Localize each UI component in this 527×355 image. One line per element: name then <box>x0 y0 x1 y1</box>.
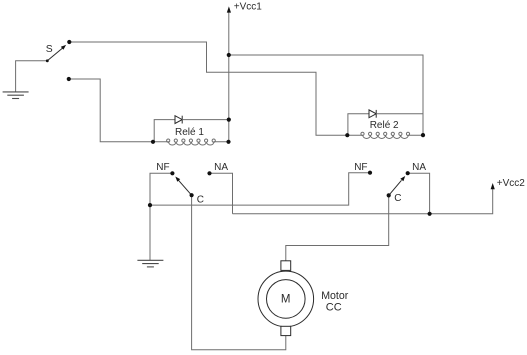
relay K1 (Rele 1) coil winding <box>153 142 229 145</box>
wire S throw-2 to Rele 1 coil left <box>69 79 153 142</box>
node NF1 <box>170 171 174 175</box>
node C1 <box>190 193 194 197</box>
node NA2 <box>406 171 410 175</box>
node NA1 <box>207 171 211 175</box>
node Rele 2 coil right <box>421 133 425 137</box>
wire Rele 1 diode anode branch <box>154 120 175 142</box>
wire +Vcc1 stem down to Rele 1 coil right <box>228 12 230 142</box>
wire C1 down and along bottom to motor - terminal <box>192 195 286 350</box>
svg-text:S: S <box>46 44 53 55</box>
relay contact 1 lever (C to NF) <box>178 180 191 195</box>
diode D1 (Rele 1 flyback) (triangle + cathode bar) <box>175 116 182 124</box>
wire NA2 down to Vcc2 bus <box>408 173 430 214</box>
switch S throw-1 contact / node to Rele 2 <box>67 40 71 44</box>
wire NA1 down to Vcc2 bus <box>210 173 233 214</box>
junction D1 cathode <box>227 118 231 122</box>
svg-text:Relé 2: Relé 2 <box>370 120 399 131</box>
wire Rele 2 diode anode branch <box>348 114 369 135</box>
junction NF1 bus <box>148 203 152 207</box>
junction Vcc1 feed <box>227 53 231 57</box>
relay contact 2 lever (C to NA) <box>389 180 402 195</box>
relay K2 (Rele 2) coil winding <box>347 135 423 138</box>
power +Vcc2 arrow <box>491 183 495 189</box>
wire S pole to ground <box>16 61 48 92</box>
node Rele 2 coil left <box>345 133 349 137</box>
svg-text:NF: NF <box>354 162 367 173</box>
svg-text:Motor: Motor <box>321 290 349 302</box>
wire S top contact to Rele 2 coil left <box>69 42 347 135</box>
junction NA2 on Vcc2 bus <box>428 212 432 216</box>
motor M1 bottom terminal <box>281 326 291 335</box>
wire Rele 1 diode cathode to coil right <box>182 119 229 121</box>
motor M1 body (outer circle) <box>258 271 314 327</box>
node Rele 1 coil left <box>151 140 155 144</box>
ground (switch S) <box>3 92 29 99</box>
svg-text:C: C <box>197 195 204 206</box>
node Rele 1 coil right <box>226 140 230 144</box>
svg-text:Relé 1: Relé 1 <box>175 127 204 138</box>
svg-text:+Vcc2: +Vcc2 <box>497 178 526 189</box>
svg-text:M: M <box>281 293 291 305</box>
wire C2 down and left to motor + terminal <box>286 195 389 261</box>
wire NF1 to ground bus <box>150 173 172 260</box>
svg-text:NA: NA <box>412 162 426 173</box>
wire Rele 2 diode cathode to coil right <box>376 113 423 115</box>
svg-text:+Vcc1: +Vcc1 <box>234 2 263 13</box>
motor M1 inner circle <box>267 280 306 319</box>
motor M1 top terminal <box>281 261 291 271</box>
node C2 <box>387 193 391 197</box>
wire bus NF1-NF2 <box>150 173 370 205</box>
switch S pole contact <box>46 59 49 62</box>
wire Vcc1 junction to Rele 2 coil right <box>229 55 423 135</box>
svg-text:NF: NF <box>156 162 169 173</box>
svg-text:CC: CC <box>326 301 342 313</box>
diode D2 (Rele 2 flyback) (triangle + cathode bar) <box>369 110 376 118</box>
svg-text:NA: NA <box>214 162 228 173</box>
node NF2 <box>368 171 372 175</box>
switch S throw-2 contact / node to Rele 1 <box>67 77 71 81</box>
wire bus NA1 to +Vcc2 <box>233 188 493 214</box>
svg-text:C: C <box>394 193 401 204</box>
power +Vcc1 arrow <box>227 6 231 12</box>
ground (NF1) <box>137 260 163 267</box>
switch S lever <box>47 48 63 61</box>
